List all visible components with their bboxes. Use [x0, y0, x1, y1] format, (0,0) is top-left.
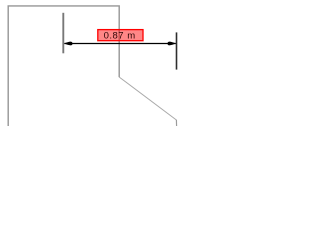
left extension tick (gray) — [62, 13, 64, 54]
wall outline: bottom-right drop segment — [175, 120, 177, 127]
left arrowhead — [64, 42, 73, 46]
wall outline: left and top and right straight sides (light gray) — [8, 6, 119, 127]
dimension label box (translucent red) — [98, 30, 143, 41]
wall outline: diagonal segment — [119, 77, 176, 120]
dimension line (black) — [64, 43, 175, 45]
right arrowhead — [167, 42, 175, 46]
svg-text:0.87 m: 0.87 m — [104, 30, 136, 41]
right extension tick (dark) — [176, 32, 178, 69]
